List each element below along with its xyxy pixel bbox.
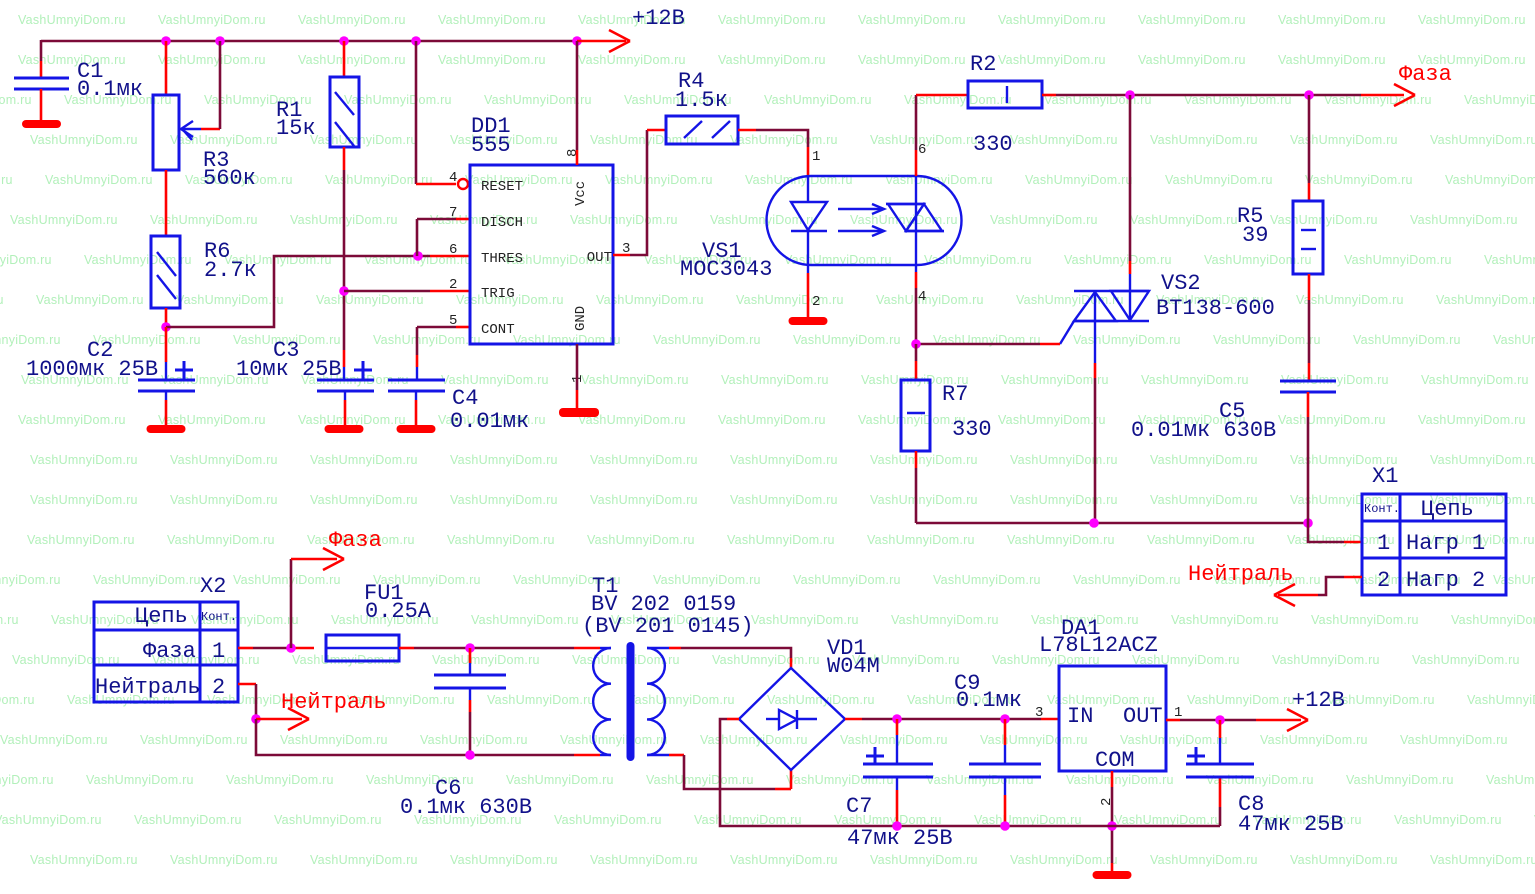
wire CONT pin5 / C4 xyxy=(417,327,470,380)
optocoupler VS1 body xyxy=(767,176,962,265)
svg-text:VashUmnyiDom.ru: VashUmnyiDom.ru xyxy=(718,413,826,427)
svg-text:VashUmnyiDom.ru: VashUmnyiDom.ru xyxy=(1430,853,1535,867)
label DA1 L78L12ACZ xyxy=(1039,616,1158,658)
svg-text:VashUmnyiDom.ru: VashUmnyiDom.ru xyxy=(1493,573,1535,587)
resistor R3 (potentiometer) xyxy=(153,41,220,170)
wire VS2 MT1 down xyxy=(1094,363,1097,523)
node R6/C2/THRES xyxy=(161,322,171,332)
label C9 0.1мк xyxy=(954,671,1022,713)
svg-text:VashUmnyiDom.ru: VashUmnyiDom.ru xyxy=(1213,333,1321,347)
X2 table texts xyxy=(95,604,237,700)
svg-text:VashUmnyiDom.ru: VashUmnyiDom.ru xyxy=(858,13,966,27)
svg-text:VashUmnyiDom.ru: VashUmnyiDom.ru xyxy=(1418,13,1526,27)
svg-text:VashUmnyiDom.ru: VashUmnyiDom.ru xyxy=(990,213,1098,227)
svg-text:VashUmnyiDom.ru: VashUmnyiDom.ru xyxy=(858,53,966,67)
svg-text:VashUmnyiDom.ru: VashUmnyiDom.ru xyxy=(0,293,4,307)
svg-text:VashUmnyiDom.ru: VashUmnyiDom.ru xyxy=(727,533,835,547)
svg-text:VashUmnyiDom.ru: VashUmnyiDom.ru xyxy=(605,173,713,187)
svg-text:R2: R2 xyxy=(970,52,996,77)
svg-text:THRES: THRES xyxy=(481,251,523,267)
label R6 2.7к xyxy=(204,239,257,283)
svg-text:VashUmnyiDom.ru: VashUmnyiDom.ru xyxy=(450,453,558,467)
svg-text:RESET: RESET xyxy=(481,179,523,195)
svg-text:VashUmnyiDom.ru: VashUmnyiDom.ru xyxy=(134,813,242,827)
svg-text:VashUmnyiDom.ru: VashUmnyiDom.ru xyxy=(30,453,138,467)
svg-text:VashUmnyiDom.ru: VashUmnyiDom.ru xyxy=(86,773,194,787)
svg-text:VashUmnyiDom.ru: VashUmnyiDom.ru xyxy=(1278,53,1386,67)
svg-text:560к: 560к xyxy=(203,166,256,191)
svg-text:0.1мк: 0.1мк xyxy=(956,688,1022,713)
svg-text:VashUmnyiDom.ru: VashUmnyiDom.ru xyxy=(870,493,978,507)
svg-text:+12В: +12В xyxy=(1292,688,1345,713)
svg-text:Нейтраль: Нейтраль xyxy=(95,675,201,700)
svg-text:VashUmnyiDom.ru: VashUmnyiDom.ru xyxy=(653,573,761,587)
svg-text:VashUmnyiDom.ru: VashUmnyiDom.ru xyxy=(998,13,1106,27)
svg-text:VashUmnyiDom.ru: VashUmnyiDom.ru xyxy=(310,453,418,467)
capacitor C4 xyxy=(388,380,445,426)
bridge rectifier VD1 xyxy=(739,668,845,770)
svg-text:VashUmnyiDom.ru: VashUmnyiDom.ru xyxy=(1016,293,1124,307)
capacitor C3 xyxy=(317,361,374,426)
svg-text:VashUmnyiDom.ru: VashUmnyiDom.ru xyxy=(1150,853,1258,867)
svg-text:2: 2 xyxy=(812,294,820,310)
ground (C3) xyxy=(325,425,364,433)
svg-text:VashUmnyiDom.ru: VashUmnyiDom.ru xyxy=(1206,773,1314,787)
label R5 39 xyxy=(1237,204,1268,248)
svg-text:VashUmnyiDom.ru: VashUmnyiDom.ru xyxy=(933,573,1041,587)
label C6 0.1мк 630В xyxy=(400,776,532,820)
connector X1 table xyxy=(1362,494,1506,595)
svg-text:VashUmnyiDom.ru: VashUmnyiDom.ru xyxy=(18,13,126,27)
wire VS1 pin2 to ground xyxy=(807,265,809,317)
svg-text:CONT: CONT xyxy=(481,322,515,338)
node C9 bottom xyxy=(1000,821,1010,831)
svg-text:VashUmnyiDom.ru: VashUmnyiDom.ru xyxy=(0,333,61,347)
capacitor C1 xyxy=(14,78,69,121)
svg-text:5: 5 xyxy=(449,313,457,329)
node neutral xyxy=(251,714,261,724)
svg-text:VashUmnyiDom.ru: VashUmnyiDom.ru xyxy=(18,53,126,67)
svg-text:C7: C7 xyxy=(846,794,872,819)
svg-text:VashUmnyiDom.ru: VashUmnyiDom.ru xyxy=(298,13,406,27)
svg-text:Фаза: Фаза xyxy=(329,528,382,553)
DA1 pin numbers xyxy=(1035,705,1182,806)
svg-text:VashUmnyiDom.ru: VashUmnyiDom.ru xyxy=(1493,333,1535,347)
svg-text:VashUmnyiDom.ru: VashUmnyiDom.ru xyxy=(84,253,192,267)
node gate/R7 xyxy=(911,339,921,349)
svg-text:MOC3043: MOC3043 xyxy=(680,257,772,282)
ground (VS1) xyxy=(789,317,828,325)
wire VS2 MT2 xyxy=(1129,95,1132,320)
wire neutral to T1 xyxy=(256,719,611,755)
svg-text:VashUmnyiDom.ru: VashUmnyiDom.ru xyxy=(980,733,1088,747)
resistor R1 xyxy=(330,41,359,170)
svg-text:VashUmnyiDom.ru: VashUmnyiDom.ru xyxy=(1353,333,1461,347)
svg-text:VashUmnyiDom.ru: VashUmnyiDom.ru xyxy=(1311,613,1419,627)
svg-text:VashUmnyiDom.ru: VashUmnyiDom.ru xyxy=(10,213,118,227)
node phase/R5 xyxy=(1304,90,1314,100)
ground (C4) xyxy=(397,425,436,433)
svg-text:VashUmnyiDom.ru: VashUmnyiDom.ru xyxy=(712,653,820,667)
fuse FU1 xyxy=(326,635,399,661)
wire OUT pin3 to R4 xyxy=(613,130,666,255)
svg-text:Нагр 2: Нагр 2 xyxy=(1406,568,1485,593)
svg-text:VashUmnyiDom.ru: VashUmnyiDom.ru xyxy=(0,693,35,707)
op-amp/timer DD1 555 box xyxy=(470,165,613,344)
svg-text:(BV 201 0145): (BV 201 0145) xyxy=(582,614,754,639)
svg-text:VashUmnyiDom.ru: VashUmnyiDom.ru xyxy=(438,53,546,67)
svg-text:Цепь: Цепь xyxy=(135,604,188,629)
svg-text:1: 1 xyxy=(1174,705,1182,721)
svg-text:VashUmnyiDom.ru: VashUmnyiDom.ru xyxy=(1436,293,1535,307)
svg-text:VashUmnyiDom.ru: VashUmnyiDom.ru xyxy=(1025,173,1133,187)
svg-text:VashUmnyiDom.ru: VashUmnyiDom.ru xyxy=(1394,813,1502,827)
svg-text:VashUmnyiDom.ru: VashUmnyiDom.ru xyxy=(1147,533,1255,547)
svg-text:OUT: OUT xyxy=(587,250,612,266)
svg-text:VashUmnyiDom.ru: VashUmnyiDom.ru xyxy=(30,493,138,507)
label C4 0.01мк xyxy=(450,386,529,434)
svg-text:VashUmnyiDom.ru: VashUmnyiDom.ru xyxy=(373,333,481,347)
svg-text:0.1мк: 0.1мк xyxy=(77,77,143,102)
svg-text:VashUmnyiDom.ru: VashUmnyiDom.ru xyxy=(870,853,978,867)
node C9 top xyxy=(1000,714,1010,724)
wire X1 pin2 neutral xyxy=(1278,577,1362,595)
svg-text:VashUmnyiDom.ru: VashUmnyiDom.ru xyxy=(1344,253,1452,267)
svg-text:VashUmnyiDom.ru: VashUmnyiDom.ru xyxy=(1010,133,1118,147)
svg-text:0.01мк 630В: 0.01мк 630В xyxy=(1131,418,1276,443)
svg-text:VashUmnyiDom.ru: VashUmnyiDom.ru xyxy=(1073,573,1181,587)
svg-text:VashUmnyiDom.ru: VashUmnyiDom.ru xyxy=(1073,333,1181,347)
node C6 top xyxy=(465,643,475,653)
svg-text:1: 1 xyxy=(212,639,225,664)
node phase in xyxy=(286,643,296,653)
svg-text:Конт.: Конт. xyxy=(201,610,237,624)
svg-text:VashUmnyiDom.ru: VashUmnyiDom.ru xyxy=(1138,53,1246,67)
svg-text:Фаза: Фаза xyxy=(143,639,196,664)
svg-text:VashUmnyiDom.ru: VashUmnyiDom.ru xyxy=(764,93,872,107)
svg-text:VashUmnyiDom.ru: VashUmnyiDom.ru xyxy=(310,493,418,507)
node rail/C5/X1 xyxy=(1303,518,1313,528)
svg-text:VashUmnyiDom.ru: VashUmnyiDom.ru xyxy=(1484,253,1535,267)
svg-text:TRIG: TRIG xyxy=(481,286,515,302)
svg-text:VashUmnyiDom.ru: VashUmnyiDom.ru xyxy=(867,533,975,547)
svg-text:Нейтраль: Нейтраль xyxy=(1188,562,1294,587)
node rail/VS2 xyxy=(1089,518,1099,528)
svg-text:VashUmnyiDom.ru: VashUmnyiDom.ru xyxy=(158,13,266,27)
svg-text:DISCH: DISCH xyxy=(481,215,523,231)
svg-text:VashUmnyiDom.ru: VashUmnyiDom.ru xyxy=(158,413,266,427)
ground (C2) xyxy=(147,425,186,433)
wire R6 bottom to node xyxy=(165,308,168,327)
wire DA1 OUT to +12 xyxy=(1166,719,1301,722)
svg-text:VashUmnyiDom.ru: VashUmnyiDom.ru xyxy=(1150,493,1258,507)
svg-text:L78L12ACZ: L78L12ACZ xyxy=(1039,633,1158,658)
node phase/VS2 xyxy=(1125,90,1135,100)
wire X2 pin2 neutral xyxy=(238,684,256,719)
svg-text:VashUmnyiDom.ru: VashUmnyiDom.ru xyxy=(0,813,102,827)
capacitor C9 xyxy=(969,719,1041,826)
pin circle RESET xyxy=(458,179,468,189)
svg-text:VashUmnyiDom.ru: VashUmnyiDom.ru xyxy=(1150,133,1258,147)
wire DA1 COM to ground xyxy=(1111,771,1114,871)
node THRES/DISCH xyxy=(413,251,423,261)
label R7 330 xyxy=(942,382,992,442)
svg-text:VashUmnyiDom.ru: VashUmnyiDom.ru xyxy=(578,53,686,67)
svg-text:VashUmnyiDom.ru: VashUmnyiDom.ru xyxy=(850,213,958,227)
wire GND pin1 xyxy=(576,344,579,408)
transformer T1 secondary xyxy=(647,648,665,755)
svg-text:VashUmnyiDom.ru: VashUmnyiDom.ru xyxy=(450,853,558,867)
svg-text:VashUmnyiDom.ru: VashUmnyiDom.ru xyxy=(587,533,695,547)
svg-text:VashUmnyiDom.ru: VashUmnyiDom.ru xyxy=(998,53,1106,67)
wire T1 secondary bottom to VD1 xyxy=(647,755,791,789)
svg-text:Нейтраль: Нейтраль xyxy=(281,690,387,715)
svg-text:VS2: VS2 xyxy=(1161,271,1201,296)
svg-text:VashUmnyiDom.ru: VashUmnyiDom.ru xyxy=(471,613,579,627)
svg-text:VashUmnyiDom.ru: VashUmnyiDom.ru xyxy=(891,613,999,627)
svg-text:Vcc: Vcc xyxy=(573,181,589,206)
svg-text:330: 330 xyxy=(973,132,1013,157)
ground (C1) xyxy=(22,120,61,128)
svg-text:VashUmnyiDom.ru: VashUmnyiDom.ru xyxy=(998,413,1106,427)
svg-text:VashUmnyiDom.ru: VashUmnyiDom.ru xyxy=(0,773,54,787)
svg-text:VashUmnyiDom.ru: VashUmnyiDom.ru xyxy=(0,173,13,187)
wire to X1 pin1 xyxy=(1308,523,1362,542)
svg-text:VashUmnyiDom.ru: VashUmnyiDom.ru xyxy=(1451,613,1535,627)
svg-text:2: 2 xyxy=(1377,568,1390,593)
svg-text:VashUmnyiDom.ru: VashUmnyiDom.ru xyxy=(570,213,678,227)
svg-text:Конт.: Конт. xyxy=(1364,502,1400,516)
svg-text:+12В: +12В xyxy=(632,6,685,31)
phototriac inside VS1 xyxy=(886,176,944,265)
svg-text:2: 2 xyxy=(449,277,457,293)
svg-text:4: 4 xyxy=(918,289,926,305)
wire DISCH pin7 xyxy=(417,219,470,256)
svg-text:VashUmnyiDom.ru: VashUmnyiDom.ru xyxy=(0,93,32,107)
node COM/rail xyxy=(1107,821,1117,831)
label C1 0.1мк xyxy=(77,59,143,102)
wire VS1 pin6 to R2 xyxy=(916,95,968,176)
svg-text:Нагр 1: Нагр 1 xyxy=(1406,531,1485,556)
svg-text:VashUmnyiDom.ru: VashUmnyiDom.ru xyxy=(280,733,388,747)
svg-text:2: 2 xyxy=(212,675,225,700)
svg-text:VashUmnyiDom.ru: VashUmnyiDom.ru xyxy=(840,733,948,747)
svg-text:15к: 15к xyxy=(276,116,316,141)
svg-text:VashUmnyiDom.ru: VashUmnyiDom.ru xyxy=(18,413,126,427)
svg-text:VashUmnyiDom.ru: VashUmnyiDom.ru xyxy=(1410,213,1518,227)
neutral arrow (right) xyxy=(1188,562,1295,606)
svg-text:VashUmnyiDom.ru: VashUmnyiDom.ru xyxy=(450,493,558,507)
wire node to THRES pin6 xyxy=(166,256,470,327)
svg-text:W04M: W04M xyxy=(827,654,880,679)
svg-text:VashUmnyiDom.ru: VashUmnyiDom.ru xyxy=(0,733,108,747)
pin labels inside DD1 xyxy=(481,179,612,338)
node C7 top xyxy=(892,714,902,724)
wire bottom minus rail xyxy=(897,777,1220,826)
svg-text:VashUmnyiDom.ru: VashUmnyiDom.ru xyxy=(0,573,61,587)
wire R3-R6 xyxy=(165,170,168,236)
svg-text:1.5к: 1.5к xyxy=(675,88,728,113)
svg-text:VashUmnyiDom.ru: VashUmnyiDom.ru xyxy=(27,533,135,547)
svg-text:VashUmnyiDom.ru: VashUmnyiDom.ru xyxy=(1204,253,1312,267)
svg-text:VashUmnyiDom.ru: VashUmnyiDom.ru xyxy=(316,293,424,307)
svg-text:VashUmnyiDom.ru: VashUmnyiDom.ru xyxy=(1141,373,1249,387)
triac shared edge VS1 xyxy=(915,204,917,231)
svg-text:VashUmnyiDom.ru: VashUmnyiDom.ru xyxy=(721,373,829,387)
label VS2 BT138-600 xyxy=(1156,271,1275,321)
svg-text:VashUmnyiDom.ru: VashUmnyiDom.ru xyxy=(560,733,668,747)
svg-text:VashUmnyiDom.ru: VashUmnyiDom.ru xyxy=(274,813,382,827)
svg-text:VashUmnyiDom.ru: VashUmnyiDom.ru xyxy=(730,453,838,467)
svg-text:VashUmnyiDom.ru: VashUmnyiDom.ru xyxy=(1120,733,1228,747)
svg-text:VashUmnyiDom.ru: VashUmnyiDom.ru xyxy=(1305,173,1413,187)
wire TRIG pin2 xyxy=(344,290,470,293)
label C3 10мк 25В xyxy=(236,338,342,382)
resistor R7 xyxy=(901,344,930,523)
svg-text:VashUmnyiDom.ru: VashUmnyiDom.ru xyxy=(1010,453,1118,467)
svg-text:VashUmnyiDom.ru: VashUmnyiDom.ru xyxy=(45,173,153,187)
svg-text:GND: GND xyxy=(573,306,589,331)
wire VD1 minus to bottom rail xyxy=(720,719,897,826)
neutral input arrow xyxy=(256,690,387,730)
pin numbers DD1 xyxy=(449,149,630,383)
wire R4 to VS1 pin1 xyxy=(738,130,808,176)
svg-text:VashUmnyiDom.ru: VashUmnyiDom.ru xyxy=(1010,853,1118,867)
LED inside VS1 xyxy=(791,176,827,265)
svg-text:VashUmnyiDom.ru: VashUmnyiDom.ru xyxy=(1171,613,1279,627)
svg-text:IN: IN xyxy=(1067,704,1093,729)
svg-text:VashUmnyiDom.ru: VashUmnyiDom.ru xyxy=(1138,13,1246,27)
svg-text:0.1мк 630В: 0.1мк 630В xyxy=(400,795,532,820)
phase input arrow Фаза xyxy=(291,528,382,648)
svg-text:10мк 25В: 10мк 25В xyxy=(236,357,342,382)
svg-text:VashUmnyiDom.ru: VashUmnyiDom.ru xyxy=(170,453,278,467)
svg-text:VashUmnyiDom.ru: VashUmnyiDom.ru xyxy=(876,293,984,307)
svg-text:VashUmnyiDom.ru: VashUmnyiDom.ru xyxy=(1296,293,1404,307)
DA1 pin texts xyxy=(1067,704,1163,773)
connector X2 table xyxy=(94,602,238,702)
wire +12 rail bottom section xyxy=(897,718,1059,721)
svg-text:VashUmnyiDom.ru: VashUmnyiDom.ru xyxy=(793,573,901,587)
label T1 BV 202 0159 (BV 201 0145) xyxy=(582,574,754,639)
wire T1 secondary top to VD1 xyxy=(647,648,791,668)
label R4 1.5к xyxy=(675,69,728,113)
node C7 bottom xyxy=(892,821,902,831)
resistor R6 xyxy=(151,236,180,308)
node C6 bottom xyxy=(465,750,475,760)
svg-text:39: 39 xyxy=(1242,223,1268,248)
label C8 47мк 25В xyxy=(1238,792,1344,837)
label FU1 0.25A xyxy=(364,581,432,624)
triac VS2 xyxy=(1074,291,1149,363)
svg-text:VashUmnyiDom.ru: VashUmnyiDom.ru xyxy=(730,853,838,867)
svg-text:1: 1 xyxy=(1377,531,1390,556)
svg-text:VashUmnyiDom.ru: VashUmnyiDom.ru xyxy=(581,373,689,387)
svg-text:VashUmnyiDom.ru: VashUmnyiDom.ru xyxy=(310,853,418,867)
svg-text:X1: X1 xyxy=(1372,464,1398,489)
wire RESET pin4 xyxy=(416,41,456,184)
resistor R4 xyxy=(666,116,738,144)
svg-text:VashUmnyiDom.ru: VashUmnyiDom.ru xyxy=(1430,453,1535,467)
svg-text:C4: C4 xyxy=(452,386,478,411)
svg-text:7: 7 xyxy=(449,205,457,221)
svg-text:VashUmnyiDom.ru: VashUmnyiDom.ru xyxy=(718,13,826,27)
svg-text:R7: R7 xyxy=(942,382,968,407)
svg-text:VashUmnyiDom.ru: VashUmnyiDom.ru xyxy=(1278,413,1386,427)
svg-text:VashUmnyiDom.ru: VashUmnyiDom.ru xyxy=(233,573,341,587)
svg-text:VashUmnyiDom.ru: VashUmnyiDom.ru xyxy=(751,613,859,627)
svg-text:2.7к: 2.7к xyxy=(204,258,257,283)
svg-text:VashUmnyiDom.ru: VashUmnyiDom.ru xyxy=(870,453,978,467)
light arrows inside VS1 xyxy=(838,204,884,236)
svg-text:VashUmnyiDom.ru: VashUmnyiDom.ru xyxy=(730,493,838,507)
svg-text:VashUmnyiDom.ru: VashUmnyiDom.ru xyxy=(1150,453,1258,467)
node TRIG xyxy=(339,286,349,296)
svg-text:VashUmnyiDom.ru: VashUmnyiDom.ru xyxy=(1290,133,1398,147)
phase output arrow Фаза xyxy=(1394,62,1452,106)
wire VS1 pin4 to gate node xyxy=(915,265,917,344)
power arrow +12V (top) xyxy=(577,6,685,52)
svg-text:VashUmnyiDom.ru: VashUmnyiDom.ru xyxy=(1400,733,1508,747)
wire phase line xyxy=(1042,94,1404,97)
svg-text:VashUmnyiDom.ru: VashUmnyiDom.ru xyxy=(310,133,418,147)
svg-text:1: 1 xyxy=(812,149,820,165)
svg-text:VashUmnyiDom.ru: VashUmnyiDom.ru xyxy=(158,53,266,67)
svg-text:VashUmnyiDom.ru: VashUmnyiDom.ru xyxy=(0,613,19,627)
svg-text:Фаза: Фаза xyxy=(1399,62,1452,87)
capacitor C2 xyxy=(138,327,195,426)
label R2 330 xyxy=(970,52,1013,157)
svg-text:VashUmnyiDom.ru: VashUmnyiDom.ru xyxy=(1130,213,1238,227)
wire R1-TRIG-C3 xyxy=(343,170,346,380)
svg-text:OUT: OUT xyxy=(1123,704,1163,729)
svg-text:VashUmnyiDom.ru: VashUmnyiDom.ru xyxy=(170,853,278,867)
svg-text:VashUmnyiDom.ru: VashUmnyiDom.ru xyxy=(298,53,406,67)
svg-text:VashUmnyiDom.ru: VashUmnyiDom.ru xyxy=(1418,413,1526,427)
label VS1 MOC3043 xyxy=(680,239,772,282)
svg-text:VashUmnyiDom.ru: VashUmnyiDom.ru xyxy=(298,413,406,427)
svg-text:6: 6 xyxy=(449,242,457,258)
svg-text:VashUmnyiDom.ru: VashUmnyiDom.ru xyxy=(176,293,284,307)
svg-text:Цепь: Цепь xyxy=(1421,497,1474,522)
svg-text:VashUmnyiDom.ru: VashUmnyiDom.ru xyxy=(1260,733,1368,747)
wire VD1 plus to +12 rail xyxy=(845,718,897,721)
svg-text:VashUmnyiDom.ru: VashUmnyiDom.ru xyxy=(93,573,201,587)
wire X2 pin1 to FU1 xyxy=(238,647,314,650)
node C8 top xyxy=(1215,715,1225,725)
wire VS2 gate xyxy=(916,321,1074,344)
svg-text:VashUmnyiDom.ru: VashUmnyiDom.ru xyxy=(554,813,662,827)
svg-text:VashUmnyiDom.ru: VashUmnyiDom.ru xyxy=(1165,173,1273,187)
svg-text:VashUmnyiDom.ru: VashUmnyiDom.ru xyxy=(1421,373,1529,387)
svg-text:3: 3 xyxy=(1035,705,1043,721)
X1 table texts xyxy=(1364,497,1485,593)
svg-text:VashUmnyiDom.ru: VashUmnyiDom.ru xyxy=(1010,493,1118,507)
svg-text:47мк 25В: 47мк 25В xyxy=(1238,812,1344,837)
svg-text:4: 4 xyxy=(449,170,457,186)
label R1 15к xyxy=(276,98,316,141)
svg-text:VashUmnyiDom.ru: VashUmnyiDom.ru xyxy=(1064,253,1172,267)
regulator DA1 box xyxy=(1059,666,1166,771)
svg-text:555: 555 xyxy=(471,133,511,158)
svg-text:VashUmnyiDom.ru: VashUmnyiDom.ru xyxy=(1464,93,1535,107)
svg-text:VashUmnyiDom.ru: VashUmnyiDom.ru xyxy=(1346,773,1454,787)
svg-text:330: 330 xyxy=(952,417,992,442)
output arrow +12V xyxy=(1287,688,1345,731)
svg-text:VashUmnyiDom.ru: VashUmnyiDom.ru xyxy=(170,493,278,507)
capacitor C8 xyxy=(1186,720,1254,777)
wire FU1 to T1 xyxy=(399,647,611,650)
